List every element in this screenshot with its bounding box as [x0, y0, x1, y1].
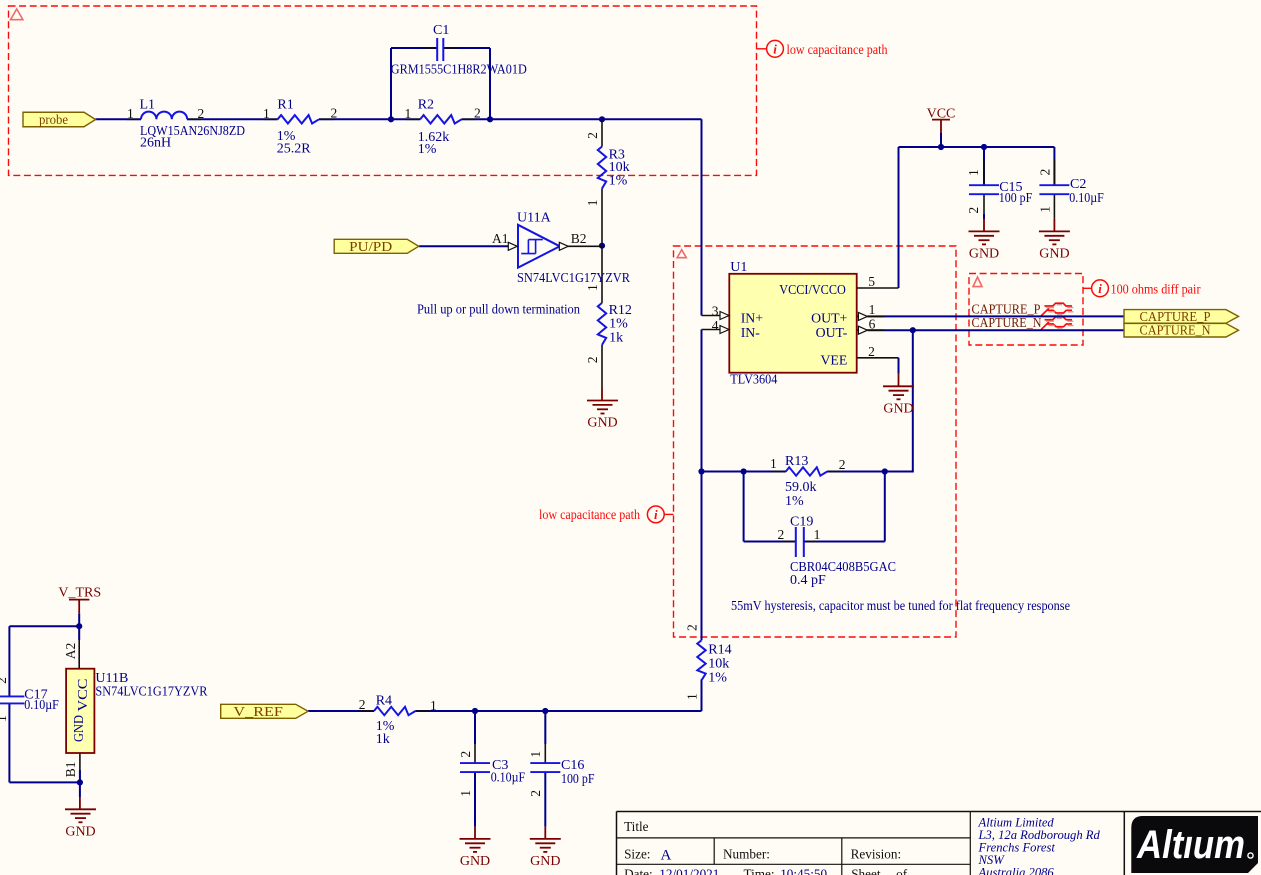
- svg-text:25.2R: 25.2R: [277, 142, 312, 157]
- wire C19 right leg: [804, 472, 885, 542]
- svg-text:GND: GND: [587, 416, 617, 431]
- svg-text:3: 3: [712, 303, 719, 318]
- svg-text:1%: 1%: [708, 670, 727, 685]
- wire C15 bottom to GND: [983, 194, 985, 231]
- svg-text:100 ohms diff pair: 100 ohms diff pair: [1111, 282, 1202, 297]
- diff pair directive icon P: [1041, 303, 1074, 316]
- wire C2 top: [1053, 147, 1055, 185]
- wire VCC rail horizontal: [899, 146, 1055, 148]
- svg-text:5: 5: [868, 274, 875, 289]
- svg-text:GRM1555C1H8R2WA01D: GRM1555C1H8R2WA01D: [391, 63, 527, 78]
- resistor R14: [685, 624, 732, 700]
- svg-text:1%: 1%: [609, 174, 628, 189]
- svg-text:2: 2: [474, 106, 481, 121]
- svg-text:R14: R14: [708, 642, 731, 657]
- svg-text:GND: GND: [460, 854, 490, 869]
- svg-text:2: 2: [198, 106, 205, 121]
- svg-text:1: 1: [685, 693, 700, 700]
- capacitor C17: [0, 677, 59, 722]
- svg-text:C16: C16: [561, 758, 584, 773]
- svg-text:Time:: Time:: [744, 867, 775, 875]
- svg-text:low capacitance path: low capacitance path: [787, 42, 888, 57]
- capacitor C16: [528, 751, 595, 797]
- wire IN- down to R13/R14 net: [701, 330, 703, 641]
- wire C19 left leg: [744, 472, 795, 542]
- node B2 junction: [599, 243, 605, 249]
- svg-text:Date:: Date:: [624, 867, 653, 875]
- svg-text:1: 1: [966, 169, 981, 176]
- ground below U11B: [65, 809, 96, 839]
- svg-text:2: 2: [966, 207, 981, 214]
- node OUT- junction: [910, 327, 916, 333]
- svg-text:1k: 1k: [609, 330, 623, 345]
- svg-text:12/01/2021: 12/01/2021: [659, 867, 719, 875]
- svg-text:R1: R1: [277, 98, 293, 113]
- svg-text:1: 1: [528, 751, 543, 758]
- ground below C2: [1039, 231, 1070, 261]
- wire probe to L1: [96, 118, 142, 120]
- wire L1 to R1: [187, 118, 278, 120]
- port probe: [23, 112, 96, 127]
- wire R1 to R2 node: [319, 118, 420, 120]
- node C19 left junction: [741, 468, 747, 474]
- svg-text:2: 2: [0, 677, 9, 684]
- wire R3 top stub: [601, 119, 603, 146]
- svg-text:probe: probe: [39, 112, 68, 127]
- capacitor C3: [458, 751, 525, 797]
- blanket diff-pair region (red dashed): [969, 274, 1083, 346]
- resistor R12: [585, 284, 632, 363]
- svg-text:SN74LVC1G17YZVR: SN74LVC1G17YZVR: [517, 271, 631, 286]
- svg-text:1: 1: [430, 698, 437, 713]
- svg-text:1: 1: [127, 106, 134, 121]
- svg-text:low capacitance path: low capacitance path: [539, 507, 640, 522]
- capacitor C1: [391, 23, 527, 78]
- ground below R12: [587, 401, 618, 431]
- svg-text:B2: B2: [571, 231, 587, 246]
- svg-text:1%: 1%: [609, 316, 628, 331]
- resistor R1: [263, 98, 337, 157]
- node R13 left junction: [698, 468, 704, 474]
- svg-text:GND: GND: [883, 401, 913, 416]
- svg-text:1: 1: [869, 302, 876, 317]
- svg-text:1: 1: [770, 456, 777, 471]
- svg-text:2: 2: [778, 527, 785, 542]
- svg-text:Number:: Number:: [723, 847, 770, 862]
- title block row Date/Time/Sheet: [624, 867, 908, 875]
- svg-text:55mV hysteresis, capacitor mus: 55mV hysteresis, capacitor must be tuned…: [731, 598, 1070, 613]
- compile-mask triangle marker U1 region: [677, 250, 686, 258]
- title block row Size/Number/Revision: [624, 847, 901, 864]
- port CAPTURE_P: [1124, 309, 1239, 324]
- comparator U1 TLV3604: [729, 260, 856, 387]
- node C19 right junction: [882, 468, 888, 474]
- wire OUT+ to CAPTURE_P port: [868, 315, 1124, 317]
- node R3 top junction: [599, 116, 605, 122]
- svg-text:i: i: [773, 42, 777, 57]
- port V_REF: [221, 704, 308, 719]
- svg-text:1: 1: [1038, 206, 1053, 213]
- svg-text:A2: A2: [63, 643, 78, 660]
- U1 pin 1 OUT+: [857, 302, 885, 320]
- svg-text:OUT-: OUT-: [816, 325, 848, 340]
- svg-text:A1: A1: [492, 231, 509, 246]
- note hysteresis: [731, 598, 1070, 613]
- svg-text:100 pF: 100 pF: [561, 772, 595, 787]
- power port VCC: [927, 107, 956, 147]
- svg-text:100 pF: 100 pF: [999, 191, 1033, 206]
- blanket hysteresis region around U1 (red dashed): [674, 246, 957, 637]
- resistor R13: [770, 454, 846, 509]
- svg-text:2: 2: [685, 624, 700, 631]
- svg-text:TLV3604: TLV3604: [730, 373, 777, 388]
- svg-text:2: 2: [1038, 169, 1053, 176]
- Altium logo: [1131, 816, 1258, 873]
- svg-text:2: 2: [839, 457, 846, 472]
- wire R12 to GND: [601, 345, 603, 400]
- svg-text:U11A: U11A: [517, 211, 552, 226]
- svg-text:R2: R2: [418, 98, 434, 113]
- wire R2 to corner and down to IN+: [462, 119, 702, 315]
- ground below C15: [969, 231, 1000, 261]
- port PU/PD: [334, 239, 419, 254]
- port CAPTURE_N: [1124, 323, 1239, 338]
- svg-text:2: 2: [585, 132, 600, 139]
- resistor R4: [359, 694, 437, 747]
- svg-text:0.4 pF: 0.4 pF: [790, 573, 826, 588]
- power port V_TRS: [58, 585, 101, 600]
- svg-text:1%: 1%: [785, 494, 804, 509]
- wire C3 branch: [474, 711, 476, 839]
- svg-text:PU/PD: PU/PD: [349, 239, 392, 254]
- svg-text:2: 2: [585, 356, 600, 363]
- capacitor C2: [1038, 169, 1104, 213]
- U1 pin 5 VCCI/VCCO: [857, 274, 899, 289]
- svg-text:2: 2: [331, 106, 338, 121]
- note callout: low capacitance path (left of U1 region): [539, 506, 674, 523]
- ground below VEE: [883, 386, 914, 416]
- note callout: low capacitance path (top): [757, 40, 888, 57]
- svg-text:CAPTURE_N: CAPTURE_N: [1140, 323, 1211, 338]
- svg-text:of: of: [896, 867, 908, 875]
- svg-text:2: 2: [458, 751, 473, 758]
- svg-text:i: i: [654, 507, 658, 522]
- wire U11A output to B2 node: [568, 245, 602, 247]
- wire U11B pin A2: [78, 626, 80, 669]
- resistor R2: [405, 98, 481, 158]
- svg-text:Revision:: Revision:: [851, 847, 902, 862]
- svg-text:2: 2: [528, 790, 543, 797]
- svg-text:IN-: IN-: [741, 325, 761, 340]
- buffer power part U11B: [63, 643, 208, 778]
- title block frame: [617, 812, 1261, 875]
- svg-text:A: A: [661, 847, 672, 863]
- svg-text:VCC: VCC: [75, 679, 90, 712]
- blanket low-capacitance-path region (red dashed): [9, 6, 757, 175]
- svg-text:0.10µF: 0.10µF: [491, 770, 526, 785]
- wire VCC rail down to U1 pin5: [898, 147, 900, 288]
- svg-text:C2: C2: [1070, 177, 1086, 192]
- wire PU/PD to U11A input: [419, 245, 509, 247]
- svg-text:V_REF: V_REF: [233, 704, 283, 719]
- svg-text:0.10µF: 0.10µF: [24, 698, 59, 713]
- net label CAPTURE_N (directive): [972, 315, 1042, 330]
- node B1 junction: [77, 779, 83, 785]
- wire VEE to GND: [857, 358, 899, 387]
- wire OUT- node down to R13 net: [912, 330, 914, 471]
- wire OUT- to CAPTURE_N port: [868, 329, 1124, 331]
- wire B1 node to GND: [79, 782, 81, 809]
- svg-text:1: 1: [458, 790, 473, 797]
- wire C16 branch: [544, 711, 546, 839]
- wire C2 bottom to GND: [1053, 194, 1055, 231]
- wire V_TRS stub: [78, 600, 80, 626]
- capacitor C15: [966, 169, 1032, 213]
- capacitor C19: [778, 515, 897, 588]
- svg-text:59.0k: 59.0k: [785, 480, 817, 495]
- svg-text:Title: Title: [624, 819, 649, 834]
- svg-text:0.10µF: 0.10µF: [1069, 191, 1104, 206]
- svg-text:1: 1: [263, 106, 270, 121]
- svg-text:U1: U1: [730, 260, 747, 275]
- svg-text:VCCI/VCCO: VCCI/VCCO: [779, 282, 846, 297]
- ground below C3: [460, 839, 491, 869]
- company address block: [978, 816, 1101, 875]
- svg-text:2: 2: [359, 697, 366, 712]
- svg-text:6: 6: [869, 316, 876, 331]
- U1 pin 4 IN-: [702, 318, 730, 333]
- svg-text:1: 1: [814, 527, 821, 542]
- svg-text:Size:: Size:: [624, 847, 650, 862]
- svg-text:B1: B1: [63, 762, 78, 778]
- svg-text:L1: L1: [140, 98, 156, 113]
- wire R3 bottom to B2 node: [601, 189, 603, 246]
- svg-text:26nH: 26nH: [140, 136, 171, 151]
- svg-text:10k: 10k: [708, 656, 729, 671]
- node V_TRS junction: [76, 623, 82, 629]
- svg-text:1: 1: [585, 200, 600, 207]
- node C16 junction: [542, 708, 548, 714]
- svg-text:Australia 2086: Australia 2086: [978, 866, 1055, 875]
- svg-text:OUT+: OUT+: [811, 311, 847, 326]
- U1 pin 3 IN+: [702, 303, 730, 319]
- ground below C16: [530, 839, 561, 869]
- wire C17 loop left: [9, 626, 80, 782]
- svg-text:IN+: IN+: [741, 311, 764, 326]
- U1 pin 2 VEE: [868, 344, 875, 359]
- svg-text:GND: GND: [530, 854, 560, 869]
- resistor R3: [585, 132, 630, 206]
- svg-text:GND: GND: [71, 715, 86, 742]
- inductor L1: [127, 98, 245, 151]
- svg-text:C1: C1: [433, 23, 449, 38]
- svg-text:1: 1: [405, 106, 412, 121]
- svg-text:C19: C19: [790, 515, 813, 530]
- svg-text:SN74LVC1G17YZVR: SN74LVC1G17YZVR: [95, 684, 208, 699]
- node R2 pin2 junction: [487, 116, 493, 122]
- title block row Title: [624, 819, 649, 834]
- svg-text:GND: GND: [969, 246, 999, 261]
- note pull up/pull down: [417, 302, 580, 317]
- wire C15 top: [983, 147, 985, 185]
- svg-text:Pull up or pull down terminati: Pull up or pull down termination: [417, 302, 580, 317]
- svg-text:i: i: [1098, 281, 1102, 296]
- U1 pin 6 OUT-: [857, 316, 885, 334]
- note callout: 100 ohms diff pair: [1083, 280, 1201, 297]
- svg-text:Altıum: Altıum: [1136, 823, 1245, 867]
- wire R14 to V_REF rail corner: [308, 679, 702, 711]
- buffer U11A SN74LVC1G17YZVR: [492, 211, 631, 286]
- compile-mask triangle marker diff-pair region: [973, 277, 982, 287]
- svg-text:VEE: VEE: [820, 352, 847, 367]
- wire R13 net horizontal: [702, 471, 914, 473]
- svg-text:V_TRS: V_TRS: [58, 585, 101, 600]
- svg-text:R13: R13: [785, 454, 808, 469]
- node VCC stub junction: [938, 144, 944, 150]
- svg-text:Sheet: Sheet: [851, 867, 881, 875]
- wire C1 right leg: [443, 48, 490, 119]
- svg-text:1k: 1k: [376, 732, 390, 747]
- node C15 junction: [981, 144, 987, 150]
- svg-text:CAPTURE_P: CAPTURE_P: [1140, 309, 1211, 324]
- wire B2 node to R12: [601, 246, 603, 303]
- wire U11B pin B1: [79, 753, 81, 782]
- diff pair directive icon N: [1041, 317, 1074, 330]
- svg-text:GND: GND: [65, 824, 95, 839]
- wire C1 left leg: [391, 48, 437, 119]
- svg-text:1: 1: [0, 715, 9, 722]
- svg-text:1%: 1%: [418, 142, 437, 157]
- compile-mask triangle marker top-left: [11, 9, 23, 20]
- svg-text:R4: R4: [376, 694, 392, 709]
- svg-text:2: 2: [868, 344, 875, 359]
- svg-text:1: 1: [585, 284, 600, 291]
- svg-text:4: 4: [712, 318, 719, 333]
- svg-text:GND: GND: [1039, 246, 1069, 261]
- node C3 junction: [472, 708, 478, 714]
- svg-text:10:45:50: 10:45:50: [780, 867, 827, 875]
- node R2 pin1 junction: [388, 116, 394, 122]
- net label CAPTURE_P (directive): [972, 302, 1041, 317]
